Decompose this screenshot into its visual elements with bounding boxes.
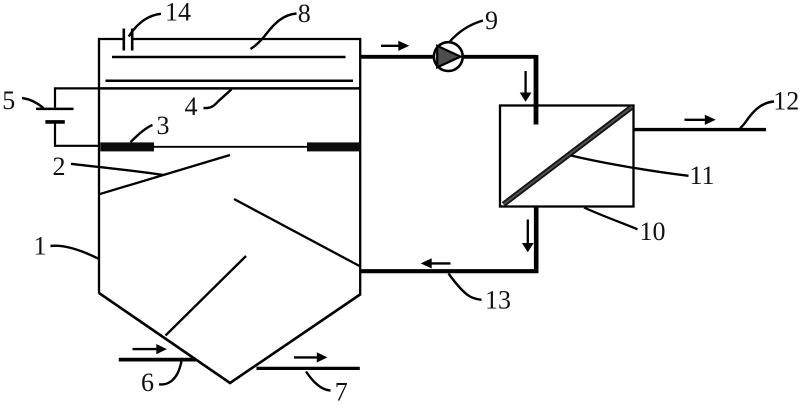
svg-text:13: 13 [485, 286, 511, 315]
leader 1 [51, 246, 100, 259]
svg-text:2: 2 [53, 152, 66, 181]
leader 5 [22, 98, 44, 108]
return pipe 13 horizontal [360, 269, 539, 273]
svg-text:1: 1 [34, 231, 47, 260]
leader 8 [251, 14, 297, 50]
leader 6 [159, 362, 182, 385]
leader 3 [131, 125, 153, 142]
leader 11 [571, 156, 689, 176]
wire battery bottom [55, 122, 99, 146]
tank 1 hopper bottom V [99, 293, 361, 383]
svg-text:14: 14 [165, 0, 191, 27]
svg-text:12: 12 [773, 87, 799, 116]
tank 1 top edge (right of capacitor gap) [131, 38, 360, 40]
arrow down (box outlet) [527, 220, 529, 244]
inclined plate 2 (upper) [99, 155, 230, 194]
capacitor C14 left plate [123, 29, 126, 51]
electrode 3 right bar [307, 142, 361, 151]
inner layer line [106, 79, 354, 82]
leader 14 [129, 14, 161, 37]
battery 5 long plate [36, 108, 74, 111]
svg-text:3: 3 [157, 111, 170, 140]
svg-text:8: 8 [298, 0, 311, 28]
wire battery top [55, 88, 99, 107]
capacitor C14 right plate [131, 29, 134, 51]
inclined plate (lower left) [166, 256, 247, 336]
tank 1 top edge (left of capacitor gap) [98, 38, 125, 40]
svg-text:4: 4 [185, 92, 198, 121]
liquid level line 4 [99, 87, 360, 90]
leader 10 [584, 208, 638, 230]
leader 4 [204, 89, 232, 108]
svg-text:9: 9 [485, 6, 498, 35]
electrode connecting wire [154, 146, 307, 148]
pipe stub inside box [534, 106, 539, 125]
inlet line 6 [119, 358, 196, 362]
svg-text:11: 11 [690, 161, 715, 190]
membrane 11 diagonal band [504, 107, 633, 205]
leader 13 [449, 274, 482, 300]
leader 7 [306, 372, 331, 391]
electrode 3 left bar [100, 142, 154, 151]
leader 12 [740, 102, 774, 129]
svg-text:5: 5 [2, 86, 15, 115]
arrow above inlet 6 [133, 348, 158, 350]
tank 1 left wall [98, 38, 100, 294]
pump 9 circle [434, 42, 463, 71]
battery 5 short plate [45, 120, 64, 124]
arrow down (box inlet) [524, 71, 526, 93]
pump 9 impeller triangle [437, 46, 460, 68]
membrane module 10 box [500, 106, 634, 207]
pipe down into membrane box [534, 55, 539, 125]
svg-text:10: 10 [640, 217, 666, 246]
tank 1 right wall [359, 38, 361, 295]
pipe tank to pump (top) [360, 55, 536, 59]
pipe down from box bottom [534, 207, 539, 270]
svg-text:7: 7 [335, 378, 348, 405]
leader 9 [449, 21, 483, 43]
arrow above drain 7 [294, 356, 318, 358]
drain line 7 [257, 367, 360, 370]
inclined plate (middle right) [234, 199, 360, 266]
leader 2 [71, 164, 164, 175]
arrow on return pipe 13 [431, 262, 451, 264]
arrow on outlet 12 [685, 119, 706, 121]
arrow on top pipe [381, 45, 399, 47]
outlet pipe 12 [634, 128, 767, 131]
cover layer line 8 (inner line) [112, 56, 346, 59]
svg-text:6: 6 [141, 368, 154, 397]
